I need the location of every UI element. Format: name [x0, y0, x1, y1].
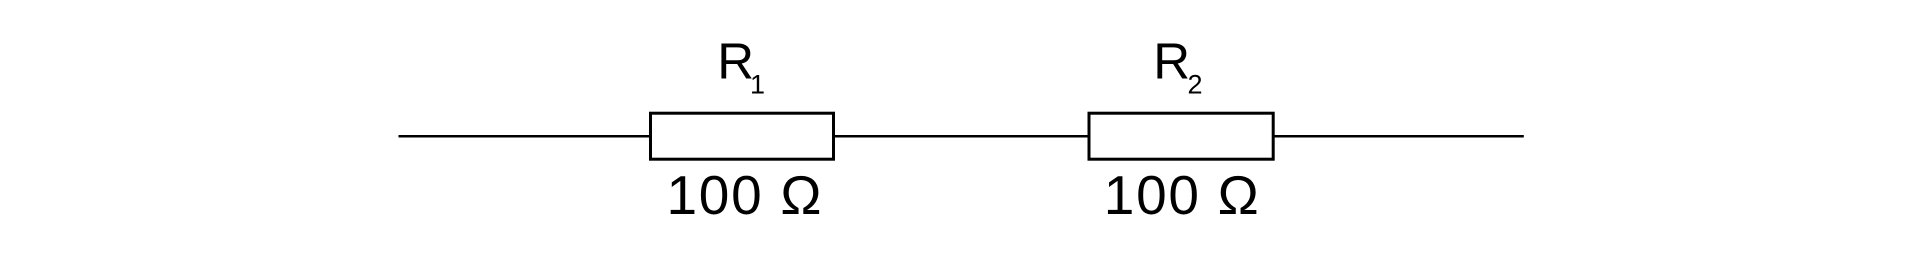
resistor R1 (body) [651, 113, 834, 159]
wire: right lead [1273, 135, 1524, 138]
wire: left lead [399, 135, 652, 138]
svg-text:100 Ω: 100 Ω [1104, 164, 1261, 226]
svg-text:100 Ω: 100 Ω [667, 164, 824, 226]
svg-text:R1: R1 [717, 32, 765, 99]
wire: middle segment (node between R1 and R2) [834, 135, 1090, 138]
resistor R2 (body) [1089, 113, 1273, 159]
svg-text:R2: R2 [1153, 32, 1202, 99]
